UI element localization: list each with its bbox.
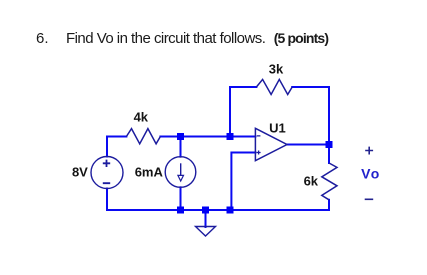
svg-text:3k: 3k bbox=[269, 61, 284, 76]
svg-text:(5 points): (5 points) bbox=[274, 30, 329, 46]
svg-text:6mA: 6mA bbox=[135, 165, 164, 180]
svg-text:Vo: Vo bbox=[361, 166, 380, 182]
svg-text:Find Vo in the circuit that fo: Find Vo in the circuit that follows. bbox=[66, 30, 265, 47]
svg-text:6.: 6. bbox=[36, 30, 49, 47]
svg-text:U1: U1 bbox=[269, 121, 286, 136]
svg-text:8V: 8V bbox=[72, 165, 88, 180]
svg-text:6k: 6k bbox=[304, 173, 319, 188]
svg-text:4k: 4k bbox=[134, 109, 149, 124]
